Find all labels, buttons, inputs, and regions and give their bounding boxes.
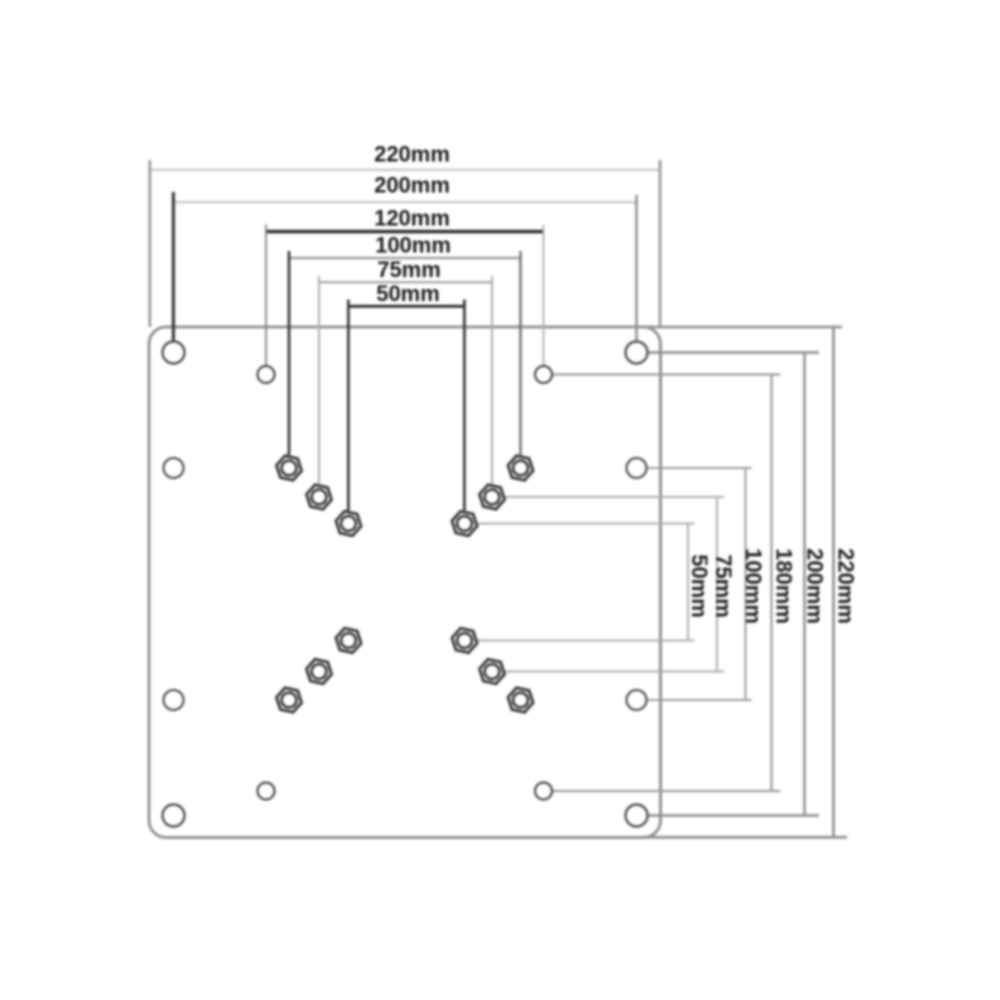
plate outline: [149, 327, 661, 838]
hex nut hole 75 bottom-right: [480, 659, 505, 683]
hex nut hole 75 bottom-left: [307, 659, 332, 683]
leader 75 bottom: [505, 671, 725, 673]
leader 220 bottom (plate edge extension): [641, 836, 847, 839]
leader 50 bottom: [477, 640, 695, 642]
dim line 220mm right: [832, 327, 835, 837]
side hole left-upper: [164, 458, 184, 478]
extension 120 right: [543, 225, 545, 367]
extension 50 left: [347, 300, 350, 511]
extension 220 left: [148, 160, 151, 327]
extension 50 right: [463, 300, 466, 511]
dim line 100mm top: [289, 257, 521, 259]
dim line 220mm top: [149, 169, 661, 171]
extension 200 left: [172, 192, 175, 342]
leader 100 bottom: [647, 699, 752, 701]
corner hole top-right: [626, 342, 648, 364]
hex nut hole 50 top-left: [336, 511, 361, 535]
dim line 200mm right: [803, 353, 805, 817]
extension 200 right: [635, 195, 637, 342]
extension 75 left: [318, 276, 320, 484]
extension 100 right: [519, 251, 521, 455]
corner hole bottom-left: [163, 805, 185, 827]
corner hole top-left: [163, 342, 185, 364]
extension 120 left: [265, 225, 267, 367]
side hole left-lower: [164, 690, 184, 710]
hex nut hole 100 bottom-right: [508, 688, 533, 712]
leader 50 top: [477, 523, 695, 525]
svg-text:75mm: 75mm: [377, 257, 441, 282]
leader 200 top: [648, 351, 819, 353]
svg-text:100mm: 100mm: [741, 548, 766, 624]
svg-text:180mm: 180mm: [772, 548, 797, 624]
svg-text:220mm: 220mm: [374, 142, 450, 167]
hex nut hole 50 bottom-right: [452, 628, 477, 652]
hole 120x180 top-left: [258, 366, 275, 383]
side hole right-upper: [627, 458, 647, 478]
hex nut hole 75 top-left: [307, 485, 332, 509]
svg-text:120mm: 120mm: [374, 206, 450, 231]
hex nut hole 50 top-right: [452, 511, 477, 535]
corner hole bottom-right: [626, 805, 648, 827]
leader 200 bottom: [648, 814, 819, 816]
svg-text:200mm: 200mm: [803, 548, 828, 624]
extension 75 right: [491, 276, 493, 484]
hex nut hole 100 top-left: [277, 456, 302, 480]
dim line 75mm right: [716, 497, 718, 672]
leader 180 top: [553, 373, 781, 375]
leader 180 bottom: [553, 790, 781, 792]
hex nut hole 50 bottom-left: [336, 628, 361, 652]
hex nut hole 75 top-right: [480, 485, 505, 509]
extension 220 right: [659, 160, 662, 327]
dim line 75mm top: [319, 281, 492, 283]
dim line 200mm top: [174, 201, 637, 203]
dim line 50mm top: [349, 305, 465, 308]
leader 75 top: [505, 496, 725, 498]
svg-text:75mm: 75mm: [711, 554, 736, 618]
svg-text:220mm: 220mm: [834, 548, 859, 624]
dim line 50mm right: [687, 524, 689, 641]
leader 220 top (plate edge extension): [641, 326, 842, 329]
hole 120x180 top-right: [535, 366, 552, 383]
dim line 120mm top: [266, 230, 544, 233]
leader 100 top: [647, 467, 752, 469]
hex nut hole 100 bottom-left: [277, 688, 302, 712]
dim line 100mm right: [745, 468, 747, 700]
svg-text:50mm: 50mm: [376, 281, 440, 306]
extension 100 left: [288, 251, 291, 455]
hole 120x180 bottom-right: [535, 783, 552, 800]
svg-text:100mm: 100mm: [375, 233, 451, 258]
dim line 180mm right: [770, 375, 772, 792]
hole 120x180 bottom-left: [258, 783, 275, 800]
svg-text:50mm: 50mm: [687, 554, 712, 618]
hex nut hole 100 top-right: [508, 456, 533, 480]
side hole right-lower: [627, 690, 647, 710]
svg-text:200mm: 200mm: [374, 173, 450, 198]
